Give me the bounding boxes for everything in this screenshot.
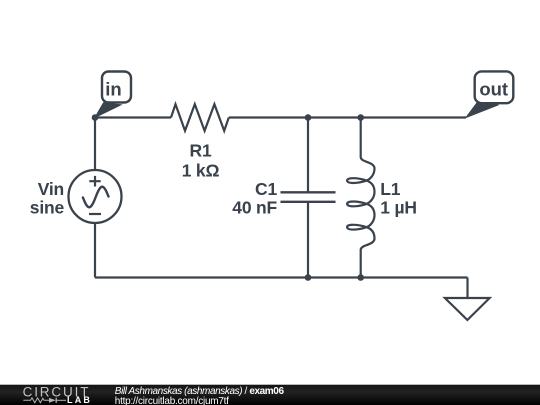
svg-text:in: in xyxy=(105,79,121,100)
footer attribution line 1 xyxy=(115,386,285,397)
svg-text:Vin: Vin xyxy=(38,179,64,199)
node dot C1 top xyxy=(305,114,312,121)
svg-text:1 kΩ: 1 kΩ xyxy=(182,161,220,181)
node dot L1 top xyxy=(357,114,364,121)
CircuitLab logo schematic squiggle xyxy=(23,398,66,403)
wire source to bottom rail xyxy=(94,223,96,278)
svg-text:R1: R1 xyxy=(190,140,212,160)
inductor L1 xyxy=(347,118,417,278)
wire top: resistor to out xyxy=(229,116,466,118)
node dot C1 bottom xyxy=(305,274,312,281)
CircuitLab logo text CIRCUIT xyxy=(23,385,91,400)
svg-text:40 nF: 40 nF xyxy=(232,198,277,218)
svg-text:http://circuitlab.com/cjum7tf: http://circuitlab.com/cjum7tf xyxy=(115,396,229,405)
svg-text:1 µH: 1 µH xyxy=(380,198,417,218)
voltage source V1 (Vin sine) xyxy=(30,170,122,223)
node in junction dot xyxy=(92,114,99,121)
svg-text:L1: L1 xyxy=(380,179,400,199)
wire ground drop xyxy=(466,278,468,299)
footer bar xyxy=(0,385,540,405)
flag in xyxy=(95,72,131,118)
resistor R1 xyxy=(171,104,229,181)
node dot L1 bottom xyxy=(357,274,364,281)
capacitor C1 xyxy=(232,118,335,278)
CircuitLab logo text LAB xyxy=(67,395,92,405)
svg-text:LAB: LAB xyxy=(67,395,92,405)
svg-text:sine: sine xyxy=(30,198,65,218)
flag out xyxy=(466,71,513,117)
ground xyxy=(445,298,490,320)
svg-text:out: out xyxy=(479,78,508,99)
wire bottom rail xyxy=(95,276,468,278)
wire left vertical to source xyxy=(94,118,96,171)
svg-text:C1: C1 xyxy=(255,179,277,199)
footer url line 2 xyxy=(115,396,229,405)
wire top: node in to resistor xyxy=(95,116,171,118)
